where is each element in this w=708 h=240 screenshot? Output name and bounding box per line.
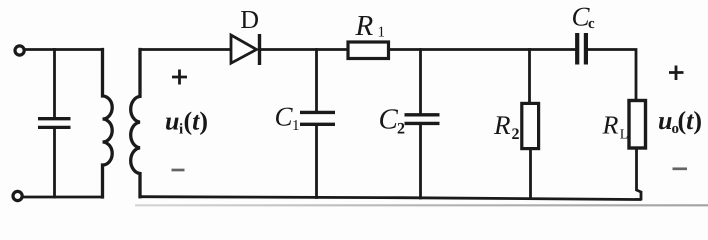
resistor R1 box	[348, 42, 389, 59]
diode D cathode bar	[258, 34, 261, 65]
wire top-left	[25, 48, 103, 51]
input terminal bottom	[13, 191, 22, 200]
label uo minus	[673, 167, 688, 170]
wire bottom-left	[23, 196, 102, 199]
input terminal top	[15, 46, 24, 55]
svg-text:u: u	[658, 106, 672, 135]
capacitor C1 plates	[300, 112, 335, 124]
capacitor input filter plates	[38, 119, 71, 128]
transformer primary winding	[103, 50, 113, 198]
transformer secondary winding	[131, 50, 140, 197]
capacitor Cc plates	[577, 33, 586, 65]
diode D triangle	[231, 35, 257, 63]
capacitor C2 plates	[405, 115, 440, 124]
svg-text:2: 2	[397, 121, 405, 138]
svg-text:(t): (t)	[184, 107, 209, 136]
svg-text:R: R	[493, 110, 511, 140]
resistor RL box	[629, 101, 646, 149]
wire top rail to diode	[140, 48, 230, 51]
svg-text:R: R	[355, 10, 374, 42]
svg-text:R: R	[602, 111, 619, 140]
scan shadow line	[135, 204, 708, 206]
capacitor C1 bottom lead	[315, 126, 318, 198]
resistor R2 box	[522, 103, 539, 148]
wire bottom rail	[140, 197, 640, 200]
capacitor C2 bottom lead	[419, 125, 422, 198]
svg-text:C: C	[275, 102, 294, 132]
capacitor input filter top lead	[53, 50, 56, 118]
capacitor C1 top lead	[315, 50, 318, 111]
resistor R2 top lead	[528, 50, 531, 104]
svg-text:D: D	[240, 5, 259, 34]
svg-text:L: L	[620, 128, 629, 143]
wire R1 to Cc	[389, 48, 576, 51]
svg-text:u: u	[165, 107, 179, 136]
label ui plus	[172, 70, 187, 85]
resistor RL bottom lead	[637, 148, 642, 199]
label uo plus	[669, 66, 684, 81]
capacitor input filter bottom lead	[53, 129, 56, 197]
wire Cc to RL corner	[588, 50, 636, 101]
svg-text:2: 2	[512, 126, 520, 143]
svg-text:1: 1	[292, 118, 300, 134]
label ui minus	[172, 169, 185, 172]
capacitor C2 top lead	[419, 50, 422, 114]
svg-text:c: c	[588, 16, 595, 32]
svg-text:(t): (t)	[678, 106, 703, 135]
svg-text:C: C	[379, 103, 399, 135]
wire diode to R1	[261, 48, 348, 51]
svg-text:1: 1	[378, 25, 386, 41]
resistor R2 bottom lead	[529, 149, 532, 199]
